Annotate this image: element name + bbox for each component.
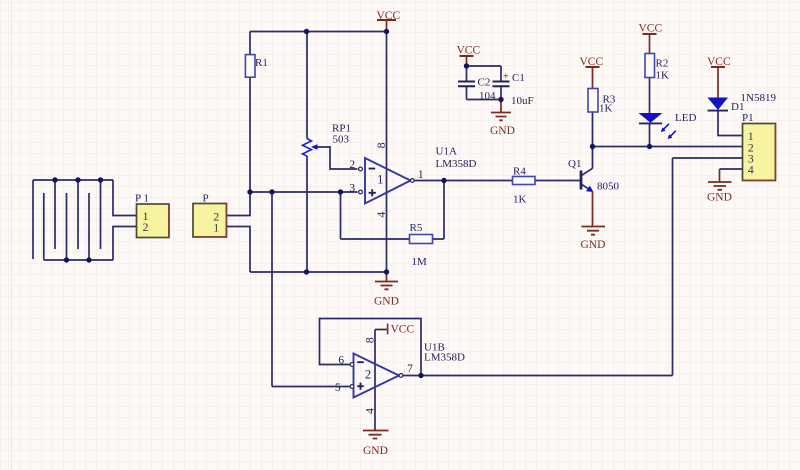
svg-text:VCC: VCC (377, 10, 401, 22)
svg-text:GND: GND (490, 125, 515, 137)
svg-text:R1: R1 (255, 57, 268, 69)
svg-text:8: 8 (363, 337, 377, 343)
svg-text:VCC: VCC (580, 56, 604, 68)
svg-text:4: 4 (363, 408, 377, 414)
svg-text:+: + (503, 72, 509, 83)
svg-text:2: 2 (143, 220, 149, 234)
svg-text:1N5819: 1N5819 (741, 92, 777, 104)
svg-text:1: 1 (377, 173, 383, 187)
svg-text:LM358D: LM358D (436, 158, 477, 170)
svg-text:8: 8 (374, 142, 388, 148)
svg-text:1K: 1K (656, 70, 670, 82)
svg-text:3: 3 (349, 182, 355, 194)
svg-text:P 1: P 1 (135, 193, 149, 205)
svg-text:C1: C1 (512, 72, 525, 84)
svg-text:VCC: VCC (457, 45, 481, 57)
svg-text:U1A: U1A (436, 146, 457, 158)
svg-text:4: 4 (748, 163, 754, 177)
svg-text:503: 503 (333, 134, 350, 146)
svg-text:P: P (203, 193, 209, 205)
svg-text:VCC: VCC (391, 324, 415, 336)
svg-text:GND: GND (581, 239, 606, 251)
svg-text:104: 104 (479, 90, 496, 102)
svg-text:1K: 1K (599, 103, 613, 115)
svg-text:8050: 8050 (597, 181, 620, 193)
svg-text:4: 4 (374, 212, 388, 218)
svg-text:5: 5 (335, 382, 341, 394)
svg-text:GND: GND (374, 296, 399, 308)
svg-text:LM358D: LM358D (424, 352, 465, 364)
svg-text:GND: GND (363, 445, 388, 457)
svg-text:R5: R5 (410, 222, 423, 234)
svg-text:R2: R2 (656, 58, 669, 70)
svg-text:2: 2 (349, 159, 355, 171)
svg-text:Q1: Q1 (568, 158, 581, 170)
svg-text:6: 6 (338, 355, 344, 367)
svg-text:10uF: 10uF (511, 95, 534, 107)
svg-text:2: 2 (365, 368, 371, 382)
svg-text:1K: 1K (513, 194, 527, 206)
svg-text:VCC: VCC (707, 56, 731, 68)
svg-text:GND: GND (707, 192, 732, 204)
svg-text:VCC: VCC (639, 23, 663, 35)
svg-text:C2: C2 (478, 77, 491, 89)
svg-text:1: 1 (418, 169, 424, 181)
svg-text:LED: LED (675, 112, 696, 124)
svg-text:7: 7 (407, 363, 413, 375)
svg-text:1M: 1M (412, 256, 428, 268)
svg-text:1: 1 (213, 221, 219, 235)
svg-text:R4: R4 (513, 166, 526, 178)
svg-text:P1: P1 (742, 112, 754, 124)
